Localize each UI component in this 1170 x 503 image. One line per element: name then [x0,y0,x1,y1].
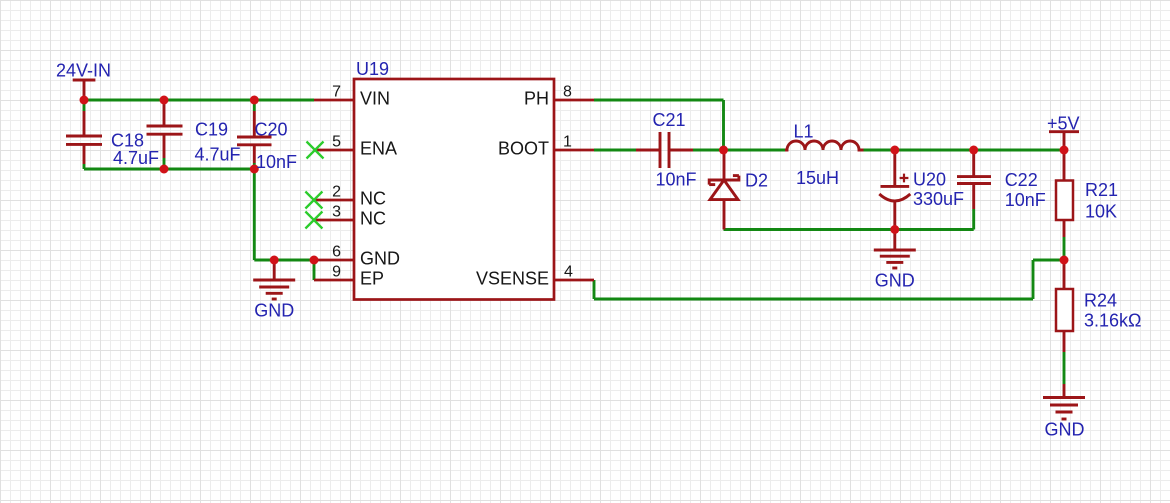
svg-text:2: 2 [332,184,341,201]
wire: C18 bottom stub [83,164,86,169]
wire: C20 down to ground rail [253,169,256,260]
svg-text:6: 6 [332,244,341,261]
wire: 24V-IN top rail to VIN [84,99,314,102]
diode D2 [709,150,739,230]
svg-text:9: 9 [332,264,341,281]
svg-text:R21: R21 [1085,180,1118,200]
ground symbol at R24 [1043,384,1085,419]
svg-text:1: 1 [563,134,572,151]
svg-text:C20: C20 [255,120,288,140]
wire: C20 top stub [253,100,256,111]
junction C20 bottom [250,165,259,174]
no-connect X pin 5 [307,142,324,159]
capacitor C20 [237,111,272,163]
svg-text:330uF: 330uF [913,189,964,209]
op-amp U19 body [354,79,554,300]
svg-text:10nF: 10nF [1005,190,1046,210]
ground symbol at U20 [874,230,916,269]
svg-text:U19: U19 [356,59,389,79]
wire: PH to corner [594,99,724,102]
resistor R21 [1056,150,1073,237]
junction 24V-IN [80,96,89,105]
wire: R24 to GND [1063,352,1066,384]
pin 1 BOOT stub [554,149,594,152]
svg-text:10K: 10K [1085,202,1117,222]
pin 5 ENA stub [314,149,354,152]
junction L1 out [890,146,899,155]
wire: C18 top stub [83,100,86,111]
svg-text:10nF: 10nF [256,152,297,172]
junction BOOT node [719,146,728,155]
wire: PH corner down to node [722,100,725,150]
junction pin6 [310,256,319,265]
svg-text:C19: C19 [195,120,228,140]
capacitor C19 [147,104,183,158]
pin 7 VIN stub [314,99,354,102]
capacitor C21 [636,132,693,168]
wire: divider corner down [1032,260,1035,299]
wire: divider node left [1033,259,1064,262]
wire: C19 top stub [163,100,166,104]
junction C19 bottom [160,165,169,174]
svg-text:D2: D2 [745,171,768,191]
svg-text:4.7uF: 4.7uF [113,148,159,168]
svg-text:C21: C21 [653,110,686,130]
svg-text:NC: NC [360,189,386,209]
svg-text:VIN: VIN [360,89,390,109]
svg-text:EP: EP [360,269,384,289]
pin 4 VSENSE stub [554,279,594,282]
ground symbol at IC [253,260,295,299]
svg-text:PH: PH [524,89,549,109]
no-connect X pin 3 [305,212,322,229]
wire: C19 bottom stub [163,158,166,169]
no-connect X pin 2 [305,192,322,209]
junction C19 top [160,96,169,105]
svg-text:5: 5 [332,134,341,151]
svg-text:4: 4 [564,264,573,281]
net flag +5V [1049,132,1079,150]
wire: C22 bottom corner [972,209,975,230]
net flag 24V-IN [73,80,96,100]
svg-text:VSENSE: VSENSE [476,269,549,289]
svg-text:L1: L1 [794,122,814,142]
inductor L1 [785,141,864,150]
svg-text:8: 8 [563,84,572,101]
junction GND tap [270,256,279,265]
svg-text:15uH: 15uH [796,168,839,188]
svg-text:4.7uF: 4.7uF [195,145,241,165]
wire: VSENSE long feedback [594,298,1033,301]
svg-text:BOOT: BOOT [498,139,549,159]
wire: ground rail to pin6 [254,259,314,262]
svg-text:NC: NC [360,209,386,229]
svg-text:+5V: +5V [1047,114,1080,134]
svg-text:3: 3 [332,204,341,221]
wire: node to L1 [724,149,786,152]
pin 8 PH stub [554,99,594,102]
pin 6 GND stub [314,259,354,262]
svg-text:3.16kΩ: 3.16kΩ [1084,311,1142,331]
capacitor C22 [957,150,991,209]
svg-text:24V-IN: 24V-IN [56,61,111,81]
junction C20 top [250,96,259,105]
wire: bottom rail D2 to C22 [724,228,974,231]
svg-text:GND: GND [254,301,294,321]
wire: L1 to +5V rail [864,149,1065,152]
polarized capacitor U20 [879,150,910,230]
capacitor C18 [66,111,102,164]
junction divider [1060,256,1069,265]
svg-text:C22: C22 [1005,170,1038,190]
pin 2 NC stub [314,199,354,202]
resistor R24 [1056,260,1073,352]
wire: VSENSE corner [593,280,596,299]
junction +5V [1060,146,1069,155]
wire: BOOT to C21 [594,149,636,152]
svg-text:GND: GND [875,271,915,291]
svg-text:R24: R24 [1084,291,1117,311]
wire: pin6 down to EP pin9 [313,260,316,280]
wire: R21 bottom to divider node [1063,237,1066,260]
svg-text:ENA: ENA [360,139,397,159]
junction C22 top [969,146,978,155]
wire: bottom rail C18-C19-C20 [84,168,254,171]
pin 3 NC stub [314,219,354,222]
svg-text:GND: GND [1045,420,1085,440]
svg-text:7: 7 [332,84,341,101]
svg-text:GND: GND [360,249,400,269]
pin 9 EP stub [314,279,354,282]
wire: C20 bottom stub [253,163,256,169]
svg-text:U20: U20 [913,170,946,190]
wire: C21 to node [693,149,724,152]
svg-text:10nF: 10nF [656,170,697,190]
junction U20 bottom [890,225,899,234]
